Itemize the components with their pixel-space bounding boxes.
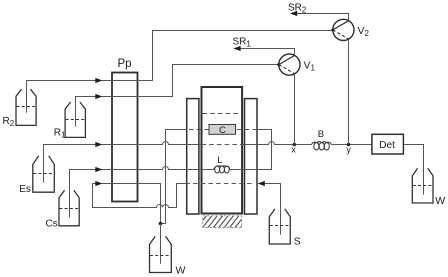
bottle R1 (65, 102, 85, 137)
wire Det to waste bottle right (403, 145, 423, 195)
bottle Cs (59, 190, 79, 226)
wire C left to waste vertical (162, 130, 183, 224)
wire V2 bottom to y (348, 40, 350, 144)
svg-text:Det: Det (379, 140, 395, 151)
wire waste junction into W bottle (160, 224, 162, 264)
svg-text:R1: R1 (54, 127, 66, 139)
node waste junction dot (159, 222, 163, 226)
svg-text:SR1: SR1 (233, 36, 252, 48)
svg-text:V1: V1 (304, 59, 316, 72)
wire V1 bottom to x (294, 75, 296, 145)
arrow into cell from S (258, 181, 265, 186)
svg-text:Pp: Pp (118, 58, 132, 70)
wire x to coil B (296, 144, 311, 146)
wire S channel exit left down and to pump with two hops (93, 184, 187, 208)
wire R1 line: bottle tube, through pump, up, to V1 left (76, 65, 279, 127)
wire Es line solid left part with hop over vertical (44, 142, 202, 183)
wire SR2 return from V2 (291, 14, 349, 21)
bottle W waste center (150, 236, 172, 272)
wire S bottle tube up and left to cell (264, 184, 281, 235)
detector Det box (372, 134, 404, 154)
svg-text:R2: R2 (3, 116, 15, 128)
clamp bar right (245, 99, 258, 214)
svg-text:S: S (294, 236, 301, 248)
node x junction dot (293, 143, 296, 146)
cell block body (202, 87, 243, 214)
svg-text:B: B (318, 129, 324, 140)
arrow SR2 (290, 11, 297, 16)
pump Pp body (112, 73, 138, 202)
svg-text:W: W (435, 195, 445, 207)
column C box (209, 125, 236, 135)
arrow into pump line1 (95, 78, 102, 83)
svg-text:V2: V2 (358, 25, 370, 38)
svg-text:C: C (219, 125, 226, 136)
wire main line cell to junction x with hop (242, 142, 294, 145)
wire Es channel dashed inside cell (202, 144, 243, 146)
arrow into pump line5 (95, 181, 102, 186)
svg-text:SR2: SR2 (288, 2, 307, 14)
bottle R2 (16, 89, 36, 125)
hatched base (197, 215, 251, 229)
bottle S sample (269, 209, 290, 244)
wire pump line5 out to waste (137, 184, 160, 224)
svg-text:L: L (217, 155, 222, 166)
wire dashed spare channel in cell (203, 113, 242, 115)
svg-text:W: W (176, 265, 186, 277)
svg-text:Cs: Cs (46, 219, 58, 230)
svg-text:y: y (346, 144, 351, 154)
wire coil B to junction y to Det (331, 144, 372, 146)
clamp bar left (187, 99, 199, 214)
wire coil L right end up to C level (230, 130, 272, 170)
arrow into pump line3 (95, 142, 102, 147)
svg-text:Es: Es (19, 184, 31, 195)
wire dashed C left channel (183, 129, 210, 131)
valve V2 (331, 19, 354, 40)
coil B (311, 142, 331, 150)
arrow into pump line2 (95, 94, 102, 99)
node y junction dot (347, 143, 350, 146)
bottle Es (33, 156, 55, 192)
wire SR1 return from V1 (234, 49, 295, 55)
bottle W waste right (412, 168, 433, 203)
wire dashed S channel inside cell (187, 183, 252, 185)
wire Cs line: bottle tube, through pump, hop, to coil L (70, 167, 214, 218)
wire dashed C right channel (236, 129, 257, 131)
coil L (214, 166, 230, 173)
arrow SR1 (233, 46, 240, 51)
wire R2 line: bottle tube, through pump, up, to V2 left (27, 31, 333, 113)
valve V1 (277, 54, 300, 75)
svg-text:x: x (291, 144, 296, 154)
arrow into pump line4 (95, 167, 102, 172)
